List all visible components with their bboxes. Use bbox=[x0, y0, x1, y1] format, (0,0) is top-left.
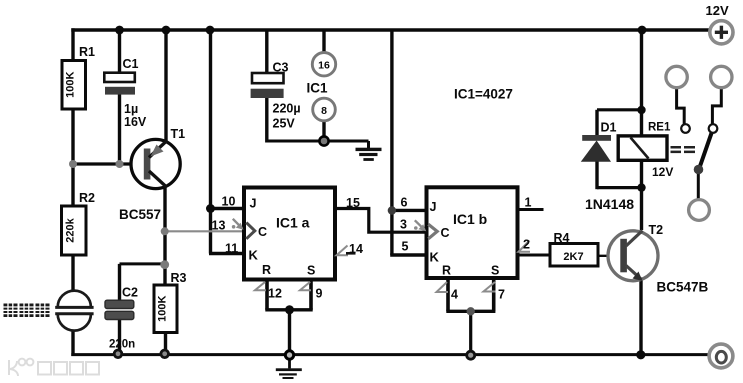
svg-text:4: 4 bbox=[451, 288, 458, 302]
svg-text:C: C bbox=[441, 226, 450, 240]
svg-text:7: 7 bbox=[498, 288, 505, 302]
svg-text:R: R bbox=[262, 263, 271, 277]
svg-text:10: 10 bbox=[222, 195, 236, 209]
svg-text:14: 14 bbox=[349, 242, 363, 256]
svg-text:8: 8 bbox=[321, 105, 327, 117]
svg-text:C1: C1 bbox=[123, 57, 139, 71]
svg-text:100K: 100K bbox=[157, 295, 169, 321]
svg-text:25V: 25V bbox=[273, 117, 296, 131]
svg-text:IC1: IC1 bbox=[307, 81, 329, 96]
svg-text:RE1: RE1 bbox=[648, 122, 671, 134]
svg-text:2K7: 2K7 bbox=[563, 251, 583, 263]
svg-text:12: 12 bbox=[268, 287, 282, 301]
svg-text:T1: T1 bbox=[171, 127, 186, 141]
svg-text:11: 11 bbox=[225, 242, 238, 256]
svg-text:15: 15 bbox=[346, 196, 360, 210]
svg-text:R1: R1 bbox=[79, 45, 95, 59]
svg-text:3: 3 bbox=[400, 218, 407, 232]
svg-text:5: 5 bbox=[402, 240, 409, 254]
svg-text:220k: 220k bbox=[65, 217, 77, 242]
svg-text:T2: T2 bbox=[649, 223, 664, 237]
svg-text:R: R bbox=[442, 264, 451, 278]
svg-text:9: 9 bbox=[316, 287, 323, 301]
svg-text:C3: C3 bbox=[273, 61, 289, 75]
svg-text:100K: 100K bbox=[65, 71, 77, 97]
svg-text:D1: D1 bbox=[601, 121, 617, 135]
svg-text:BC557: BC557 bbox=[119, 207, 161, 222]
svg-text:220n: 220n bbox=[109, 339, 135, 351]
svg-text:C2: C2 bbox=[122, 286, 138, 300]
svg-text:K: K bbox=[249, 248, 259, 263]
svg-text:IC1=4027: IC1=4027 bbox=[454, 87, 513, 102]
svg-text:220µ: 220µ bbox=[273, 102, 301, 116]
svg-text:R3: R3 bbox=[171, 271, 187, 285]
svg-text:12V: 12V bbox=[652, 165, 673, 179]
svg-text:1: 1 bbox=[525, 196, 532, 210]
svg-text:R2: R2 bbox=[79, 191, 95, 205]
svg-text:16: 16 bbox=[318, 60, 330, 72]
svg-text:1µ: 1µ bbox=[124, 102, 138, 116]
svg-text:BC547B: BC547B bbox=[657, 280, 709, 295]
svg-text:1N4148: 1N4148 bbox=[585, 196, 634, 212]
svg-text:R4: R4 bbox=[554, 231, 570, 245]
svg-text:IC1 b: IC1 b bbox=[453, 211, 487, 227]
svg-text:K: K bbox=[430, 250, 440, 265]
svg-text:2: 2 bbox=[523, 238, 530, 252]
svg-text:12V: 12V bbox=[706, 3, 729, 18]
svg-text:13: 13 bbox=[212, 219, 226, 233]
svg-text:S: S bbox=[307, 264, 315, 278]
svg-text:6: 6 bbox=[401, 196, 408, 210]
svg-text:16V: 16V bbox=[124, 115, 147, 129]
svg-text:J: J bbox=[430, 200, 437, 214]
svg-text:IC1 a: IC1 a bbox=[276, 215, 310, 231]
svg-text:J: J bbox=[250, 197, 257, 211]
svg-text:S: S bbox=[491, 264, 499, 278]
svg-text:C: C bbox=[258, 225, 267, 239]
